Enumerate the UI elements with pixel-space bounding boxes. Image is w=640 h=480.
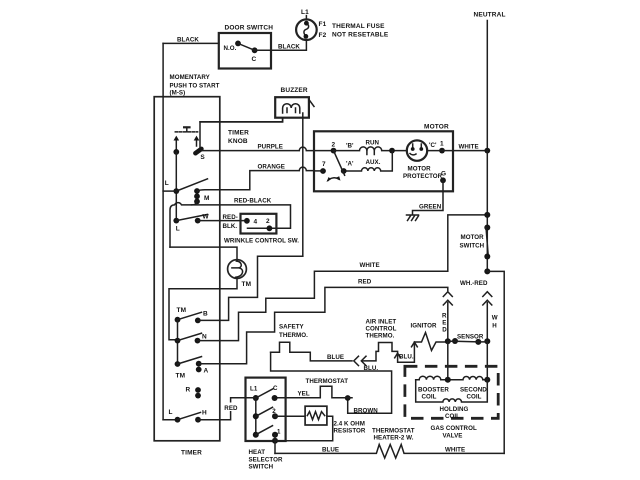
svg-text:SWITCH: SWITCH: [249, 464, 274, 471]
svg-text:WHITE: WHITE: [459, 144, 479, 151]
svg-text:DOOR SWITCH: DOOR SWITCH: [225, 25, 274, 32]
svg-text:BLK.: BLK.: [223, 223, 238, 230]
svg-text:PURPLE: PURPLE: [258, 144, 283, 151]
svg-text:AUX.: AUX.: [366, 159, 381, 166]
svg-text:THERMOSTAT: THERMOSTAT: [306, 378, 349, 385]
svg-text:ORANGE: ORANGE: [258, 163, 285, 170]
svg-text:R: R: [442, 313, 447, 320]
svg-text:SWITCH: SWITCH: [460, 243, 485, 250]
svg-text:G: G: [441, 171, 446, 178]
svg-text:M: M: [204, 195, 210, 202]
svg-text:NEUTRAL: NEUTRAL: [474, 12, 506, 19]
svg-text:L: L: [176, 226, 180, 233]
svg-text:'B': 'B': [346, 142, 354, 149]
svg-text:F1: F1: [319, 21, 327, 28]
svg-text:(M-S): (M-S): [170, 90, 186, 97]
svg-text:RESISTOR: RESISTOR: [334, 427, 366, 434]
svg-text:S: S: [200, 154, 205, 161]
svg-text:THERMO.: THERMO.: [279, 332, 308, 339]
svg-text:KNOB: KNOB: [228, 138, 248, 145]
svg-text:A: A: [204, 368, 209, 375]
svg-text:THERMAL FUSE: THERMAL FUSE: [332, 23, 385, 30]
svg-text:L: L: [169, 409, 173, 416]
svg-text:THERMO.: THERMO.: [366, 333, 395, 340]
svg-text:BLU.: BLU.: [399, 354, 414, 361]
svg-text:RED-: RED-: [223, 214, 238, 221]
svg-text:SECOND: SECOND: [460, 386, 487, 393]
svg-text:L1: L1: [250, 386, 258, 393]
svg-text:W: W: [492, 315, 498, 322]
svg-text:TIMER: TIMER: [181, 450, 202, 457]
svg-text:YEL: YEL: [298, 390, 310, 397]
svg-text:N.O.: N.O.: [224, 45, 237, 52]
svg-text:2: 2: [266, 218, 270, 225]
svg-text:COIL: COIL: [467, 394, 482, 401]
svg-text:WHITE: WHITE: [360, 262, 380, 269]
svg-text:IGNITOR: IGNITOR: [411, 323, 437, 330]
svg-text:HEAT: HEAT: [249, 449, 266, 456]
svg-text:TIMER: TIMER: [228, 130, 249, 137]
svg-text:RED-BLACK: RED-BLACK: [234, 198, 272, 205]
svg-text:1: 1: [277, 429, 281, 436]
svg-text:D: D: [442, 327, 447, 334]
svg-text:MOTOR: MOTOR: [408, 166, 432, 173]
svg-text:TM: TM: [176, 373, 186, 380]
svg-text:HEATER-2 W.: HEATER-2 W.: [374, 434, 414, 441]
svg-text:BLUE: BLUE: [327, 354, 344, 361]
svg-text:COIL: COIL: [445, 413, 460, 420]
svg-text:7: 7: [322, 161, 326, 168]
svg-text:BROWN: BROWN: [354, 407, 379, 414]
svg-text:NOT RESETABLE: NOT RESETABLE: [332, 32, 389, 39]
svg-text:TM: TM: [242, 281, 252, 288]
svg-text:E: E: [442, 320, 446, 327]
svg-text:BLACK: BLACK: [278, 44, 300, 51]
svg-text:C: C: [273, 385, 278, 392]
svg-text:MOMENTARY: MOMENTARY: [170, 74, 211, 81]
svg-text:R: R: [186, 387, 191, 394]
svg-text:'C': 'C': [429, 142, 437, 149]
svg-text:SELECTOR: SELECTOR: [249, 456, 283, 463]
svg-text:N: N: [202, 334, 207, 341]
svg-text:W: W: [203, 214, 210, 221]
svg-text:F2: F2: [319, 32, 327, 39]
svg-text:MOTOR: MOTOR: [424, 124, 449, 131]
svg-text:WHITE: WHITE: [445, 446, 465, 453]
svg-text:GREEN: GREEN: [419, 204, 442, 211]
svg-text:B: B: [203, 311, 208, 318]
svg-text:BUZZER: BUZZER: [281, 87, 308, 94]
svg-text:BLACK: BLACK: [177, 37, 199, 44]
svg-text:VALVE: VALVE: [443, 432, 463, 439]
svg-text:TM: TM: [177, 307, 187, 314]
svg-text:CONTROL: CONTROL: [366, 326, 397, 333]
svg-text:L: L: [165, 180, 169, 187]
svg-text:COIL: COIL: [422, 394, 437, 401]
svg-text:H: H: [492, 323, 497, 330]
svg-text:BOOSTER: BOOSTER: [418, 386, 449, 393]
svg-text:GAS CONTROL: GAS CONTROL: [431, 425, 477, 432]
svg-text:'A': 'A': [346, 161, 354, 168]
svg-text:C: C: [252, 56, 257, 63]
svg-text:BLUE: BLUE: [322, 446, 339, 453]
svg-text:H: H: [202, 410, 207, 417]
svg-text:1: 1: [440, 141, 444, 148]
svg-text:SENSOR: SENSOR: [457, 334, 484, 341]
svg-text:MOTOR: MOTOR: [461, 234, 485, 241]
svg-text:RED: RED: [224, 405, 238, 412]
svg-text:THERMOSTAT: THERMOSTAT: [372, 427, 415, 434]
svg-text:PROTECTOR: PROTECTOR: [403, 173, 443, 180]
svg-text:HOLDING: HOLDING: [440, 406, 469, 413]
svg-text:L1: L1: [301, 9, 309, 16]
svg-text:2: 2: [332, 142, 336, 149]
svg-text:AIR INLET: AIR INLET: [366, 319, 397, 326]
svg-text:WRINKLE CONTROL SW.: WRINKLE CONTROL SW.: [224, 238, 299, 245]
svg-text:4: 4: [254, 219, 258, 226]
svg-text:SAFETY: SAFETY: [279, 324, 305, 331]
svg-text:RED: RED: [358, 279, 372, 286]
svg-text:WH.-RED: WH.-RED: [460, 280, 488, 287]
svg-text:2: 2: [272, 408, 276, 415]
svg-text:PUSH TO START: PUSH TO START: [170, 82, 220, 89]
svg-text:RUN: RUN: [366, 139, 380, 146]
